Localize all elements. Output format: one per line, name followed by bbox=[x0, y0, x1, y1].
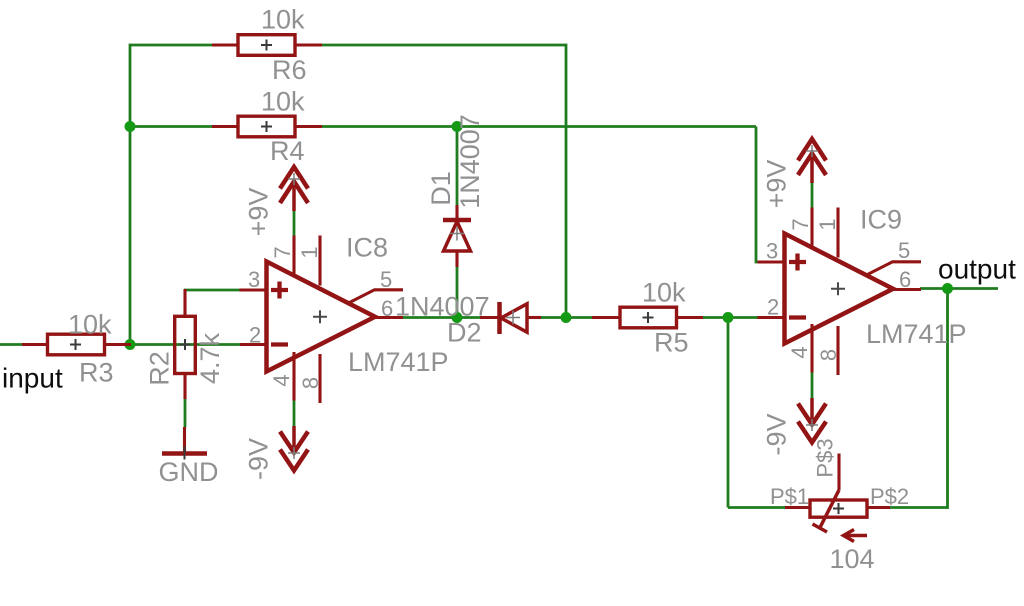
wire input stub at left edge bbox=[0, 343, 22, 346]
node junction dot R4/feedback bbox=[125, 121, 136, 132]
wire R6 row left bbox=[130, 44, 212, 47]
wire output vertical down bbox=[946, 289, 949, 509]
wire IC8 +9V stub bbox=[293, 211, 296, 236]
wire R4 row left bbox=[130, 125, 212, 128]
svg-text:7: 7 bbox=[270, 246, 295, 258]
wire vertical R6 net x=566 bbox=[565, 44, 568, 318]
svg-text:D2: D2 bbox=[447, 318, 482, 348]
svg-text:R2: R2 bbox=[145, 351, 175, 386]
svg-text:R5: R5 bbox=[654, 328, 689, 358]
svg-text:6: 6 bbox=[381, 296, 393, 321]
svg-text:10k: 10k bbox=[68, 310, 112, 340]
IC8 pin 1 stub bbox=[318, 236, 321, 286]
wire D1 bottom bbox=[456, 267, 459, 318]
IC8 pin 5 stub bbox=[349, 290, 404, 303]
IC8 center plus marker bbox=[313, 310, 327, 323]
wire D2 to R5 bbox=[541, 316, 592, 319]
IC8 triangle body bbox=[267, 262, 376, 372]
IC9 minus input marker bbox=[789, 315, 806, 319]
svg-text:P$2: P$2 bbox=[870, 484, 909, 509]
node junction dot output bbox=[942, 283, 953, 294]
svg-text:+9V: +9V bbox=[762, 160, 792, 209]
svg-text:LM741P: LM741P bbox=[348, 347, 449, 377]
op-amp IC9 bbox=[758, 208, 922, 376]
IC8 pin 7 stub bbox=[292, 236, 295, 274]
svg-text:1: 1 bbox=[815, 218, 840, 230]
IC8 pin 4 stub bbox=[292, 352, 295, 401]
node junction dot R6/D2/R5 bbox=[561, 312, 572, 323]
svg-text:6: 6 bbox=[899, 267, 911, 292]
svg-text:R3: R3 bbox=[79, 358, 114, 388]
IC9 pin 3 stub bbox=[758, 260, 785, 263]
svg-text:3: 3 bbox=[766, 239, 778, 264]
svg-text:2: 2 bbox=[767, 295, 779, 320]
supply -9V symbol at IC9 bbox=[798, 398, 826, 443]
svg-text:2: 2 bbox=[249, 323, 261, 348]
svg-text:8: 8 bbox=[298, 377, 323, 389]
node junction dot input/feedback bbox=[125, 339, 136, 350]
wire R2 top to IC8 pin3 bbox=[184, 289, 240, 292]
svg-text:10k: 10k bbox=[261, 87, 305, 117]
svg-text:104: 104 bbox=[830, 544, 875, 574]
wire R4 row right bbox=[322, 125, 756, 128]
IC9 pin 6 output stub bbox=[893, 288, 921, 291]
svg-text:4: 4 bbox=[787, 346, 812, 358]
IC8 pin 6 output stub bbox=[375, 316, 403, 319]
resistor R5 bbox=[592, 307, 703, 328]
wire IC8 -9V stub bbox=[293, 401, 296, 427]
node junction dot D1/R4 bbox=[452, 121, 463, 132]
svg-text:1: 1 bbox=[297, 246, 322, 258]
wire IC9 -9V stub bbox=[811, 373, 814, 399]
resistor R3 bbox=[22, 334, 131, 355]
IC8 minus input marker bbox=[271, 342, 288, 346]
IC9 pin 5 stub bbox=[867, 262, 922, 275]
svg-text:IC8: IC8 bbox=[346, 233, 388, 263]
IC8 pin 8 stub bbox=[318, 354, 321, 403]
wire input row to IC8 pin2 bbox=[130, 343, 241, 346]
svg-text:7: 7 bbox=[788, 218, 813, 230]
diode D1 bbox=[443, 205, 471, 267]
svg-text:10k: 10k bbox=[261, 5, 305, 35]
IC8 plus input marker bbox=[271, 282, 288, 299]
svg-text:5: 5 bbox=[898, 238, 910, 263]
IC9 triangle body bbox=[785, 234, 894, 344]
svg-text:P$3: P$3 bbox=[813, 438, 838, 477]
trimmer adjust arrow bbox=[844, 530, 868, 542]
svg-text:4.7k: 4.7k bbox=[195, 332, 225, 384]
supply -9V symbol at IC8 bbox=[280, 426, 308, 471]
IC9 pin 7 stub bbox=[810, 208, 813, 246]
IC9 pin 1 stub bbox=[836, 208, 839, 258]
node junction dot IC8 out/D1/D2 bbox=[452, 312, 463, 323]
svg-text:GND: GND bbox=[159, 457, 219, 487]
svg-text:1N4007: 1N4007 bbox=[455, 114, 485, 209]
svg-text:LM741P: LM741P bbox=[866, 319, 967, 349]
svg-text:-9V: -9V bbox=[762, 413, 792, 455]
wire D1 top bbox=[456, 127, 459, 206]
svg-text:8: 8 bbox=[816, 349, 841, 361]
svg-text:P$1: P$1 bbox=[770, 484, 809, 509]
IC9 pin 2 stub bbox=[758, 316, 785, 319]
svg-text:-9V: -9V bbox=[244, 438, 274, 480]
ground symbol GND bbox=[162, 427, 207, 460]
svg-text:3: 3 bbox=[248, 267, 260, 292]
svg-text:R6: R6 bbox=[272, 55, 307, 85]
svg-text:IC9: IC9 bbox=[860, 205, 902, 235]
svg-text:5: 5 bbox=[380, 267, 392, 292]
resistor R4 bbox=[212, 116, 322, 137]
svg-text:D1: D1 bbox=[426, 171, 456, 206]
resistor R6 bbox=[212, 35, 322, 56]
svg-text:input: input bbox=[2, 363, 63, 394]
svg-text:output: output bbox=[938, 254, 1016, 285]
op-amp IC8 bbox=[240, 236, 404, 404]
supply +9V symbol at IC9 bbox=[798, 139, 826, 183]
IC9 pin 8 stub bbox=[836, 326, 839, 375]
wire trimmer branch bottom left bbox=[728, 506, 785, 509]
wire R6 row right bbox=[322, 44, 566, 47]
wire IC9 +9V stub bbox=[811, 183, 814, 208]
IC9 pin 4 stub bbox=[810, 324, 813, 373]
IC9 center plus marker bbox=[831, 282, 845, 295]
IC9 plus input marker bbox=[789, 254, 806, 271]
wire trimmer right to output vertical bbox=[890, 506, 948, 509]
supply +9V symbol at IC8 bbox=[280, 167, 308, 211]
node junction dot R5/IC9 pin2/trimmer bbox=[723, 312, 734, 323]
wire R2 bottom to GND bbox=[184, 399, 187, 427]
wire IC8 output to D2 bbox=[402, 316, 480, 319]
wire trimmer branch down from R5 node bbox=[727, 318, 730, 508]
IC8 pin 3 stub bbox=[240, 288, 267, 291]
svg-text:R4: R4 bbox=[270, 136, 305, 166]
resistor R2 vertical bbox=[175, 289, 196, 399]
diode D2 bbox=[480, 302, 541, 334]
wire output row bbox=[920, 287, 998, 290]
wire vertical R4 net to IC9 pin3 bbox=[756, 127, 761, 263]
IC8 pin 2 stub bbox=[240, 343, 267, 346]
svg-text:10k: 10k bbox=[642, 278, 686, 308]
wire vertical feedback bus x=130 bbox=[129, 44, 132, 345]
trimmer wiper pin P$3 bbox=[837, 454, 840, 491]
svg-text:+9V: +9V bbox=[244, 188, 274, 237]
wire R5 to IC9 pin2 bbox=[703, 316, 758, 319]
svg-text:4: 4 bbox=[269, 374, 294, 386]
trimmer capacitor C1 (104) bbox=[785, 454, 890, 542]
